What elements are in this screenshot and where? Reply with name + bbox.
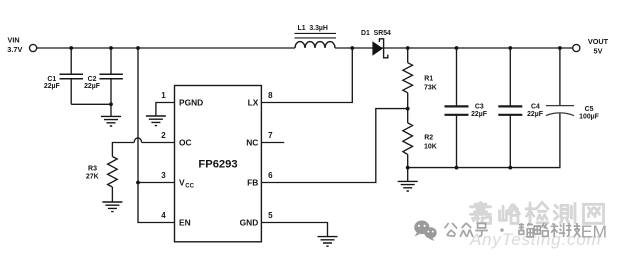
- svg-text:5: 5: [268, 211, 273, 220]
- svg-text:22µF: 22µF: [84, 83, 100, 90]
- svg-text:R2: R2: [424, 135, 433, 142]
- svg-text:EN: EN: [179, 218, 191, 228]
- svg-text:PGND: PGND: [179, 98, 203, 108]
- svg-text:C5: C5: [585, 106, 594, 113]
- svg-text:V: V: [179, 178, 185, 188]
- svg-text:EM: EM: [581, 222, 607, 242]
- svg-text:4: 4: [161, 211, 166, 220]
- svg-text:6: 6: [268, 171, 273, 180]
- svg-text:FP6293: FP6293: [198, 159, 237, 171]
- svg-text:5V: 5V: [594, 46, 603, 55]
- svg-text:7: 7: [268, 131, 273, 140]
- svg-text:NC: NC: [246, 138, 258, 148]
- svg-text:CC: CC: [185, 183, 194, 189]
- svg-text:VOUT: VOUT: [588, 37, 609, 46]
- svg-text:10K: 10K: [424, 144, 437, 151]
- svg-text:L1 3.3µH: L1 3.3µH: [297, 25, 327, 32]
- svg-text:GND: GND: [240, 218, 259, 228]
- svg-text:VIN: VIN: [8, 36, 20, 45]
- svg-text:8: 8: [268, 91, 273, 100]
- svg-text:C3: C3: [475, 104, 484, 111]
- svg-text:2: 2: [161, 131, 166, 140]
- svg-text:22µF: 22µF: [471, 111, 487, 118]
- svg-text:22µF: 22µF: [527, 111, 543, 118]
- svg-text:R1: R1: [424, 75, 433, 82]
- svg-text:D1 SR54: D1 SR54: [361, 30, 391, 37]
- svg-text:73K: 73K: [424, 84, 437, 91]
- svg-text:C4: C4: [531, 104, 540, 111]
- svg-text:22µF: 22µF: [44, 83, 60, 90]
- svg-text:OC: OC: [179, 138, 192, 148]
- svg-text:3: 3: [161, 171, 166, 180]
- svg-text:FB: FB: [247, 178, 258, 188]
- svg-text:LX: LX: [248, 98, 259, 108]
- svg-text:100µF: 100µF: [579, 113, 599, 120]
- svg-text:3.7V: 3.7V: [7, 45, 22, 54]
- svg-text:R3: R3: [88, 165, 97, 172]
- svg-text:27K: 27K: [86, 174, 99, 181]
- svg-text:1: 1: [161, 91, 166, 100]
